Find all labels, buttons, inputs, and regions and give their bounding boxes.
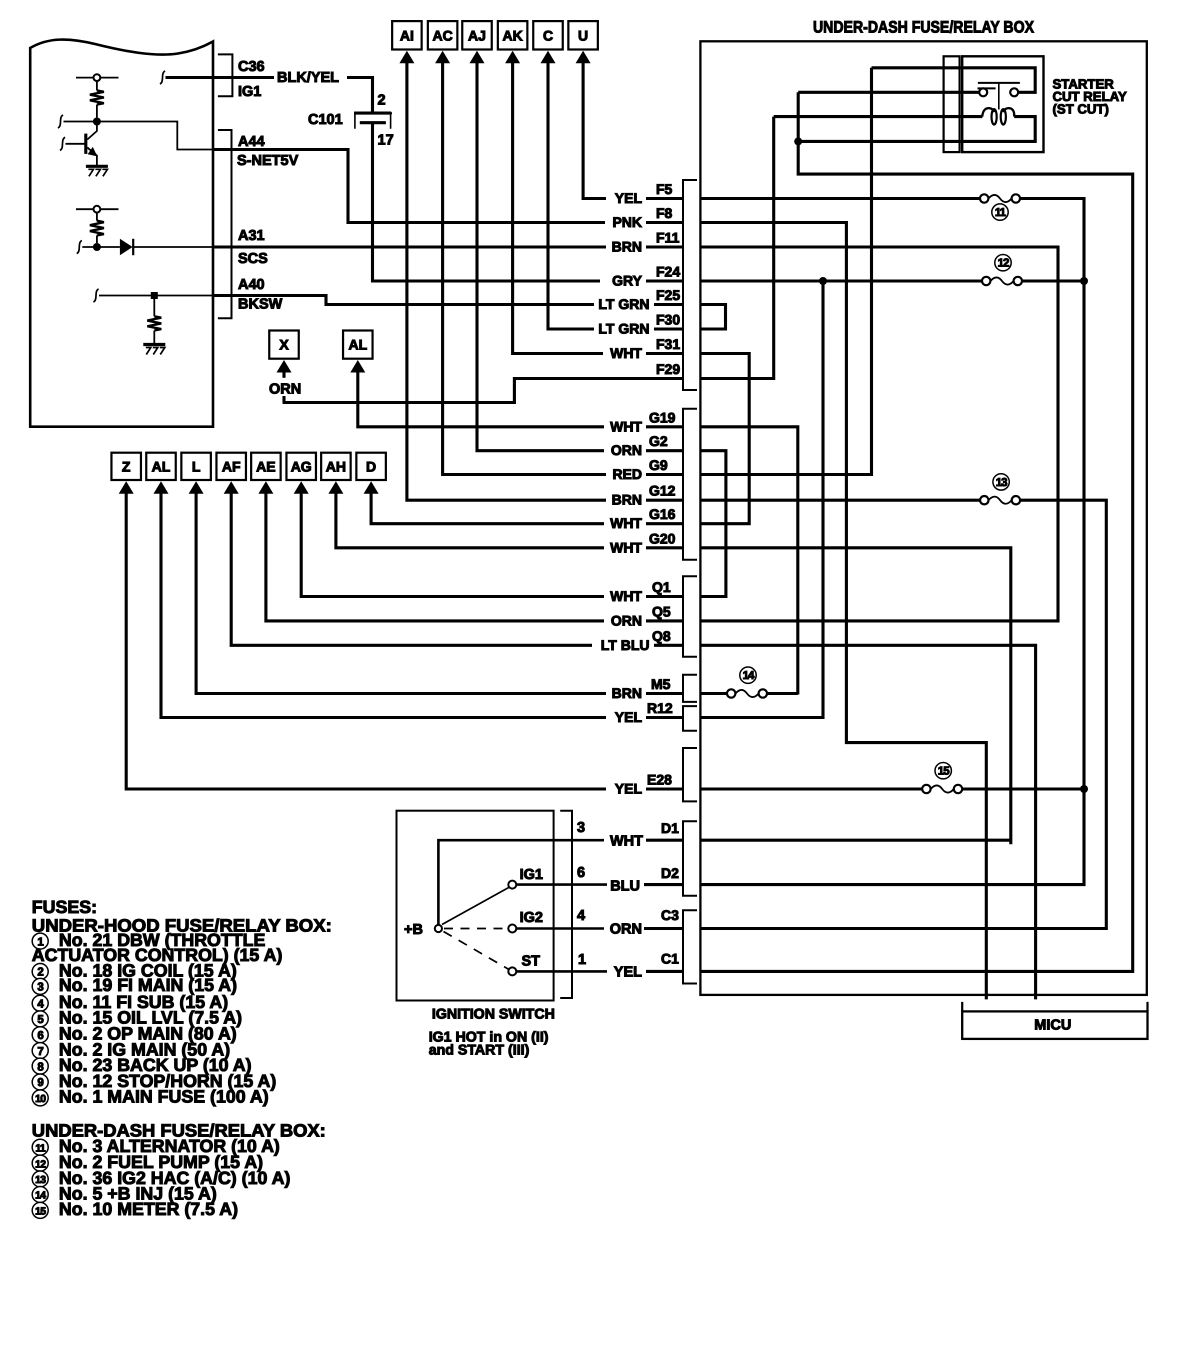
wire AG to Q1 (WHT) bbox=[301, 489, 604, 597]
svg-text:15: 15 bbox=[938, 766, 950, 778]
svg-text:AF: AF bbox=[222, 458, 241, 474]
wire AK to F31 (WHT) bbox=[513, 58, 603, 354]
svg-text:Q5: Q5 bbox=[652, 603, 671, 619]
svg-text:L: L bbox=[192, 458, 201, 474]
node N2 junction dot bbox=[93, 243, 101, 251]
wire F31 to G16 bbox=[700, 354, 749, 524]
wire BLK/YEL to connector C101 bbox=[347, 78, 373, 113]
wire node B1 to D2 bbox=[700, 281, 1084, 885]
svg-text:WHT: WHT bbox=[610, 515, 642, 531]
svg-text:WHT: WHT bbox=[610, 345, 642, 361]
arrow into U bbox=[576, 51, 591, 64]
pin line A31 SCS (BRN) to F11 bbox=[213, 245, 606, 248]
svg-text:WHT: WHT bbox=[610, 418, 642, 434]
svg-text:A44: A44 bbox=[238, 134, 265, 150]
svg-text:No. 10 METER (7.5 A): No. 10 METER (7.5 A) bbox=[59, 1199, 238, 1219]
svg-text:F31: F31 bbox=[656, 336, 680, 352]
svg-text:G16: G16 bbox=[649, 506, 676, 522]
ignition switch IG1 contact bbox=[508, 881, 516, 889]
wire L to M5 (BRN) bbox=[196, 489, 606, 694]
wire fuse 15 to node B2 bbox=[963, 787, 1084, 790]
ground G2 bbox=[143, 343, 165, 346]
svg-text:2: 2 bbox=[378, 93, 386, 109]
svg-text:14: 14 bbox=[743, 670, 755, 682]
svg-text:6: 6 bbox=[577, 865, 585, 881]
node B2 junction dot bbox=[1080, 785, 1088, 793]
fuse 12 (No.2 FUEL PUMP) bbox=[982, 277, 990, 285]
svg-text:ORN: ORN bbox=[269, 382, 301, 398]
svg-text:AE: AE bbox=[256, 458, 275, 474]
connector box AL (bottom row) bbox=[146, 453, 176, 480]
svg-text:YEL: YEL bbox=[615, 709, 643, 725]
connector box X bbox=[269, 331, 299, 359]
svg-text:3: 3 bbox=[577, 820, 585, 836]
connector box AF (bottom row) bbox=[216, 453, 246, 480]
wire IG2 to C3 (ORN) bbox=[516, 927, 604, 930]
connector bracket Q group bbox=[683, 576, 697, 656]
svg-text:C1: C1 bbox=[661, 951, 679, 967]
svg-text:AH: AH bbox=[326, 458, 346, 474]
arrow into AC bbox=[435, 51, 450, 64]
svg-text:F25: F25 bbox=[656, 287, 680, 303]
node N1 junction dot bbox=[93, 118, 101, 126]
svg-text:YEL: YEL bbox=[615, 781, 643, 797]
svg-text:BRN: BRN bbox=[612, 239, 642, 255]
wire F24 to fuse 12 bbox=[700, 279, 982, 282]
arrow into AJ bbox=[470, 51, 485, 64]
relay wire coil left bbox=[774, 115, 983, 118]
ground G1 bbox=[86, 165, 108, 168]
arrow into X bbox=[277, 360, 292, 373]
wire C to F30 (LT GRN) bbox=[548, 58, 594, 329]
relay wire switch bottom bbox=[798, 91, 979, 94]
svg-text:A31: A31 bbox=[238, 228, 265, 244]
MICU box bbox=[962, 1011, 1147, 1039]
svg-text:IG1: IG1 bbox=[238, 84, 261, 100]
wire stub below ORN bbox=[282, 396, 285, 403]
node relay coil junction dot bbox=[794, 137, 802, 145]
svg-text:Q8: Q8 bbox=[652, 628, 671, 644]
connector box AH (bottom row) bbox=[321, 453, 351, 480]
svg-text:ORN: ORN bbox=[610, 922, 642, 938]
svg-text:R12: R12 bbox=[647, 700, 673, 716]
svg-text:D: D bbox=[366, 458, 376, 474]
svg-text:14: 14 bbox=[35, 1191, 46, 1202]
svg-text:15: 15 bbox=[35, 1207, 46, 1218]
svg-text:RED: RED bbox=[612, 466, 642, 482]
wire AH to G20 (WHT) bbox=[336, 489, 604, 548]
svg-text:C36: C36 bbox=[238, 59, 265, 75]
svg-text:G9: G9 bbox=[649, 457, 668, 473]
wire R12 to F24 node bbox=[700, 281, 823, 718]
wire F8 down-east to MICU bbox=[700, 223, 986, 1000]
wire ST to C1 (YEL) bbox=[516, 970, 607, 973]
svg-text:LT GRN: LT GRN bbox=[598, 321, 649, 337]
svg-text:SCS: SCS bbox=[238, 251, 268, 267]
arrow into AH (bottom row) bbox=[328, 481, 343, 494]
wire E28 to fuse 15 bbox=[700, 787, 922, 790]
svg-text:AG: AG bbox=[291, 458, 312, 474]
svg-text:G19: G19 bbox=[649, 409, 676, 425]
ignition switch box bbox=[397, 811, 554, 1001]
svg-text:C: C bbox=[543, 27, 553, 43]
fuse 11 (No.3 ALTERNATOR) bbox=[980, 194, 988, 202]
wire AL to G19 (WHT) bbox=[358, 367, 604, 427]
wire IG1 to D2 (BLU) bbox=[516, 883, 607, 886]
svg-text:Q1: Q1 bbox=[652, 579, 671, 595]
node F24/R12 junction dot bbox=[819, 277, 827, 285]
pin line C36 IG1 (BLK/YEL) bbox=[160, 71, 165, 84]
svg-text:AL: AL bbox=[152, 458, 171, 474]
wire Q8 to MICU bbox=[700, 645, 1035, 999]
node N3 junction (square) bbox=[151, 292, 158, 299]
terminal T1 (pull-up, IG1 circuit) bbox=[76, 77, 119, 79]
relay wire switch top bbox=[872, 68, 1036, 93]
svg-text:and START (III): and START (III) bbox=[429, 1043, 530, 1059]
svg-text:F29: F29 bbox=[656, 361, 680, 377]
svg-text:D1: D1 bbox=[661, 820, 679, 836]
node B1 junction dot bbox=[1080, 277, 1088, 285]
wire AL to R12 (YEL) bbox=[161, 489, 606, 718]
svg-text:ORN: ORN bbox=[611, 612, 642, 628]
connector bracket M5 bbox=[683, 675, 697, 702]
svg-text:YEL: YEL bbox=[614, 965, 642, 981]
svg-text:13: 13 bbox=[996, 477, 1007, 489]
connector box C bbox=[533, 21, 563, 49]
diode D1 bbox=[77, 241, 82, 254]
svg-text:AK: AK bbox=[502, 27, 522, 43]
svg-text:AJ: AJ bbox=[468, 27, 486, 43]
fuse 13 (No.36 IG2 HAC) bbox=[980, 496, 988, 504]
svg-text:10: 10 bbox=[35, 1094, 46, 1105]
inline connector C101 bbox=[355, 113, 391, 114]
svg-text:PNK: PNK bbox=[612, 214, 642, 230]
svg-text:12: 12 bbox=[35, 1159, 46, 1170]
svg-text:G12: G12 bbox=[649, 483, 676, 499]
connector bracket C36 bbox=[218, 54, 233, 96]
svg-text:6: 6 bbox=[37, 1030, 43, 1042]
svg-text:Z: Z bbox=[122, 458, 131, 474]
wire C101 to F24 (GRY) bbox=[373, 124, 601, 281]
connector bracket C group bbox=[683, 910, 697, 983]
wire F29 to relay coil bbox=[700, 117, 773, 379]
wire G2 to Q1 bbox=[700, 451, 726, 597]
svg-text:S-NET5V: S-NET5V bbox=[237, 153, 299, 169]
svg-text:UNDER-DASH FUSE/RELAY BOX: UNDER-DASH FUSE/RELAY BOX bbox=[813, 19, 1034, 37]
connector bracket D group bbox=[683, 821, 697, 896]
wire D to G16 (WHT) bbox=[371, 489, 604, 524]
fuse 14 (No.5 +B INJ) bbox=[727, 689, 735, 697]
connector box D (bottom row) bbox=[356, 453, 386, 480]
fuse 15 (No.10 METER) bbox=[922, 785, 930, 793]
svg-text:ORN: ORN bbox=[611, 442, 642, 458]
connector box AC bbox=[428, 21, 458, 49]
svg-text:1: 1 bbox=[578, 952, 586, 968]
svg-text:11: 11 bbox=[995, 207, 1007, 219]
svg-text:BKSW: BKSW bbox=[238, 297, 283, 313]
svg-text:F24: F24 bbox=[656, 264, 680, 280]
connector box AK bbox=[498, 21, 527, 49]
wire Z to E28 (YEL) bbox=[126, 489, 606, 790]
wire fuse 14 to G19 net bbox=[767, 692, 798, 695]
connector bracket A44-A40 bbox=[218, 130, 232, 318]
svg-text:AI: AI bbox=[400, 27, 414, 43]
relay coil bbox=[982, 108, 994, 116]
wire F25-F30 jumper bbox=[700, 305, 725, 330]
wire N1 to pin A44 bbox=[58, 115, 63, 128]
wire relay to C1 bbox=[700, 92, 1132, 971]
svg-text:LT BLU: LT BLU bbox=[601, 637, 650, 653]
svg-text:17: 17 bbox=[378, 133, 394, 149]
connector box AE (bottom row) bbox=[251, 453, 281, 480]
wire S-NET5V to F8 (PNK) bbox=[348, 221, 605, 223]
arrow into AL (bottom row) bbox=[154, 481, 169, 494]
svg-text:WHT: WHT bbox=[610, 539, 642, 555]
svg-text:BRN: BRN bbox=[612, 685, 642, 701]
svg-text:9: 9 bbox=[37, 1077, 43, 1089]
svg-text:M5: M5 bbox=[651, 676, 671, 692]
svg-text:YEL: YEL bbox=[615, 190, 643, 206]
svg-text:BLU: BLU bbox=[610, 879, 640, 895]
svg-text:7: 7 bbox=[37, 1046, 43, 1058]
wire F5 to fuse 11 bbox=[700, 197, 980, 200]
resistor R2 bbox=[96, 213, 98, 221]
wire G9 to relay switch bbox=[700, 68, 871, 475]
terminal T2 (pull-up, SCS circuit) bbox=[76, 208, 119, 210]
pin line A40 BKSW (LT GRN) to F25 bbox=[213, 296, 594, 305]
svg-text:11: 11 bbox=[35, 1143, 46, 1154]
pin line A44 S-NET5V bbox=[213, 150, 348, 222]
svg-text:GRY: GRY bbox=[612, 273, 642, 289]
svg-text:4: 4 bbox=[577, 908, 585, 924]
connector box U bbox=[568, 21, 598, 49]
svg-text:FUSES:: FUSES: bbox=[32, 897, 97, 917]
svg-text:No. 1 MAIN FUSE (100 A): No. 1 MAIN FUSE (100 A) bbox=[59, 1087, 269, 1107]
resistor R3 bbox=[153, 296, 155, 317]
ECM box outline bbox=[30, 40, 213, 427]
wire AC to G9 (RED) bbox=[443, 58, 606, 475]
wire F29 to X (ORN) bbox=[283, 379, 683, 403]
connector box AG (bottom row) bbox=[286, 453, 316, 480]
connector bracket G group bbox=[683, 409, 697, 560]
svg-text:(ST CUT): (ST CUT) bbox=[1053, 102, 1109, 117]
wire AJ to G2 (ORN) bbox=[477, 58, 604, 451]
starter cut relay box bbox=[962, 56, 1043, 152]
wire BKSW to pin A40 bbox=[93, 289, 98, 302]
connector box AL (upper) bbox=[343, 331, 373, 359]
connector box AJ bbox=[462, 21, 492, 49]
svg-text:BRN: BRN bbox=[612, 492, 642, 508]
MICU connector bracket bbox=[962, 1002, 1147, 1012]
connector bracket R12 bbox=[683, 706, 697, 731]
svg-text:+B: +B bbox=[404, 922, 423, 938]
svg-text:IGNITION SWITCH: IGNITION SWITCH bbox=[432, 1007, 555, 1023]
svg-text:LT GRN: LT GRN bbox=[598, 296, 649, 312]
svg-text:F5: F5 bbox=[656, 181, 673, 197]
svg-text:G20: G20 bbox=[649, 530, 676, 546]
svg-text:U: U bbox=[578, 27, 588, 43]
svg-text:BLK/YEL: BLK/YEL bbox=[277, 70, 339, 86]
wire U to F5 (YEL) bbox=[583, 58, 606, 199]
svg-text:13: 13 bbox=[35, 1175, 46, 1186]
arrow into L (bottom row) bbox=[189, 481, 204, 494]
svg-text:WHT: WHT bbox=[610, 588, 642, 604]
under-dash fuse/relay box outline bbox=[700, 41, 1146, 995]
relay switch contacts bbox=[978, 82, 1020, 84]
arrow into AK bbox=[505, 51, 520, 64]
ignition switch ST contact bbox=[508, 967, 516, 975]
arrow into Z (bottom row) bbox=[119, 481, 134, 494]
wire diode to pin A31 bbox=[133, 246, 213, 248]
wire fuse 11 to node B1 bbox=[1020, 199, 1084, 280]
connector box Z (bottom row) bbox=[111, 453, 141, 480]
svg-text:D2: D2 bbox=[661, 865, 679, 881]
connector box L (bottom row) bbox=[181, 453, 211, 480]
svg-text:WHT: WHT bbox=[610, 834, 643, 850]
svg-text:IG1: IG1 bbox=[520, 867, 543, 883]
svg-text:2: 2 bbox=[37, 967, 43, 979]
connector box AI bbox=[392, 21, 422, 49]
svg-text:12: 12 bbox=[998, 258, 1009, 270]
wire G12 to fuse 13 bbox=[700, 499, 980, 502]
relay connector bar bbox=[944, 56, 960, 152]
wire G19 to fuse 14 bbox=[700, 427, 797, 695]
svg-text:A40: A40 bbox=[238, 277, 265, 293]
svg-text:C101: C101 bbox=[308, 112, 343, 128]
arrow into AI bbox=[399, 51, 414, 64]
svg-text:MICU: MICU bbox=[1034, 1018, 1071, 1034]
ignition switch +B terminal bbox=[435, 925, 442, 932]
wire +B to D1 (WHT) bbox=[438, 840, 604, 925]
relay wire coil right to ST net bbox=[798, 117, 1035, 142]
transistor Q1 bbox=[84, 134, 87, 154]
wire fuse 12 to node B1 bbox=[1022, 279, 1084, 282]
arrow into AE (bottom row) bbox=[258, 481, 273, 494]
ignition switch IG2 contact bbox=[508, 925, 516, 933]
svg-text:F30: F30 bbox=[656, 312, 680, 328]
connector bracket F group bbox=[683, 180, 697, 390]
svg-text:AL: AL bbox=[348, 337, 367, 353]
wire AE to Q5 (ORN) bbox=[266, 489, 604, 621]
svg-text:F8: F8 bbox=[656, 205, 673, 221]
wire AI to G12 (BRN) bbox=[407, 58, 606, 500]
svg-text:3: 3 bbox=[37, 982, 43, 994]
svg-text:X: X bbox=[279, 337, 289, 353]
arrow into D (bottom row) bbox=[364, 481, 379, 494]
wire G20 to D1 bbox=[700, 548, 1010, 845]
connector bracket E28 bbox=[683, 748, 697, 801]
arrow into AG (bottom row) bbox=[294, 481, 309, 494]
arrow into C bbox=[541, 51, 556, 64]
svg-text:IG2: IG2 bbox=[520, 910, 543, 926]
resistor R1 bbox=[96, 81, 98, 90]
transistor Q1 base wire bbox=[60, 137, 65, 150]
svg-text:E28: E28 bbox=[647, 772, 672, 788]
arrow into AL bbox=[350, 360, 365, 373]
wire fuse 13 to C3 bbox=[700, 500, 1106, 928]
svg-text:C3: C3 bbox=[661, 907, 679, 923]
svg-text:AC: AC bbox=[432, 27, 452, 43]
ignition switch bracket bbox=[560, 811, 572, 998]
arrow into AF (bottom row) bbox=[224, 481, 239, 494]
svg-text:ST: ST bbox=[522, 954, 541, 970]
wire F11 to Q5 bbox=[700, 247, 1058, 621]
wire AF to Q8 (LT BLU) bbox=[231, 489, 592, 646]
svg-text:G2: G2 bbox=[649, 433, 668, 449]
wire M5 to fuse 14 bbox=[700, 692, 727, 695]
svg-text:F11: F11 bbox=[656, 230, 680, 246]
